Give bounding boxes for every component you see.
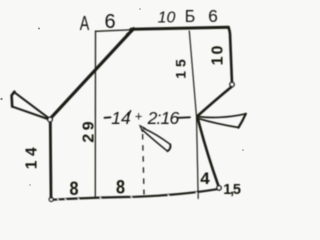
svg-text:10: 10: [158, 10, 176, 27]
svg-text:8: 8: [70, 178, 79, 200]
dimension dash after 16: [178, 116, 190, 119]
hem scan nicks: [58, 192, 198, 200]
dashed construction line below middle dart: [143, 135, 144, 195]
svg-text:А: А: [80, 13, 90, 35]
svg-text:15: 15: [173, 55, 189, 79]
scan noise speckles: [0, 8, 244, 186]
construction vertical line from point A: [94, 31, 96, 197]
svg-text:8: 8: [116, 178, 125, 199]
hem bottom edge: [54, 189, 218, 200]
svg-text:14: 14: [111, 108, 131, 128]
right edge (back): [228, 28, 232, 84]
svg-text:14: 14: [24, 143, 41, 169]
armhole point circle: [230, 82, 234, 86]
shoulder diagonal line: [51, 29, 134, 118]
svg-text:6: 6: [208, 6, 218, 26]
left dart lower line: [12, 107, 48, 119]
svg-text:Б: Б: [185, 6, 196, 26]
armhole concave curve: [198, 87, 232, 116]
svg-text:2:16: 2:16: [147, 108, 180, 128]
left dart end cap: [12, 92, 15, 107]
bottom right point circle: [217, 186, 221, 190]
side seam to bottom right: [198, 118, 219, 186]
svg-text:10: 10: [210, 44, 227, 66]
svg-text:29: 29: [81, 118, 98, 143]
left dart apex circle: [48, 117, 53, 122]
tick above 4: [128, 111, 131, 115]
right dart lower line: [198, 118, 239, 127]
construction horizontal line at point A: [96, 30, 132, 32]
middle dart lower line: [142, 130, 168, 152]
bottom left point circle: [49, 197, 53, 201]
svg-text:+: +: [135, 109, 143, 124]
middle dart arrow head: [140, 126, 145, 132]
neckline tick below point B: [189, 31, 198, 199]
middle dart upper line: [143, 128, 170, 144]
svg-text:1,5: 1,5: [223, 182, 241, 198]
right dart end cap: [239, 114, 246, 128]
left dart upper line: [14, 92, 48, 117]
right dart upper line: [198, 114, 246, 118]
junction wedge at top of diagonal: [126, 28, 134, 34]
left edge line: [49, 122, 53, 197]
middle dart end cap: [168, 144, 171, 151]
svg-text:6: 6: [104, 11, 115, 33]
top edge line: [131, 27, 229, 29]
dimension dash before 14: [105, 116, 111, 119]
svg-text:4: 4: [200, 169, 210, 188]
